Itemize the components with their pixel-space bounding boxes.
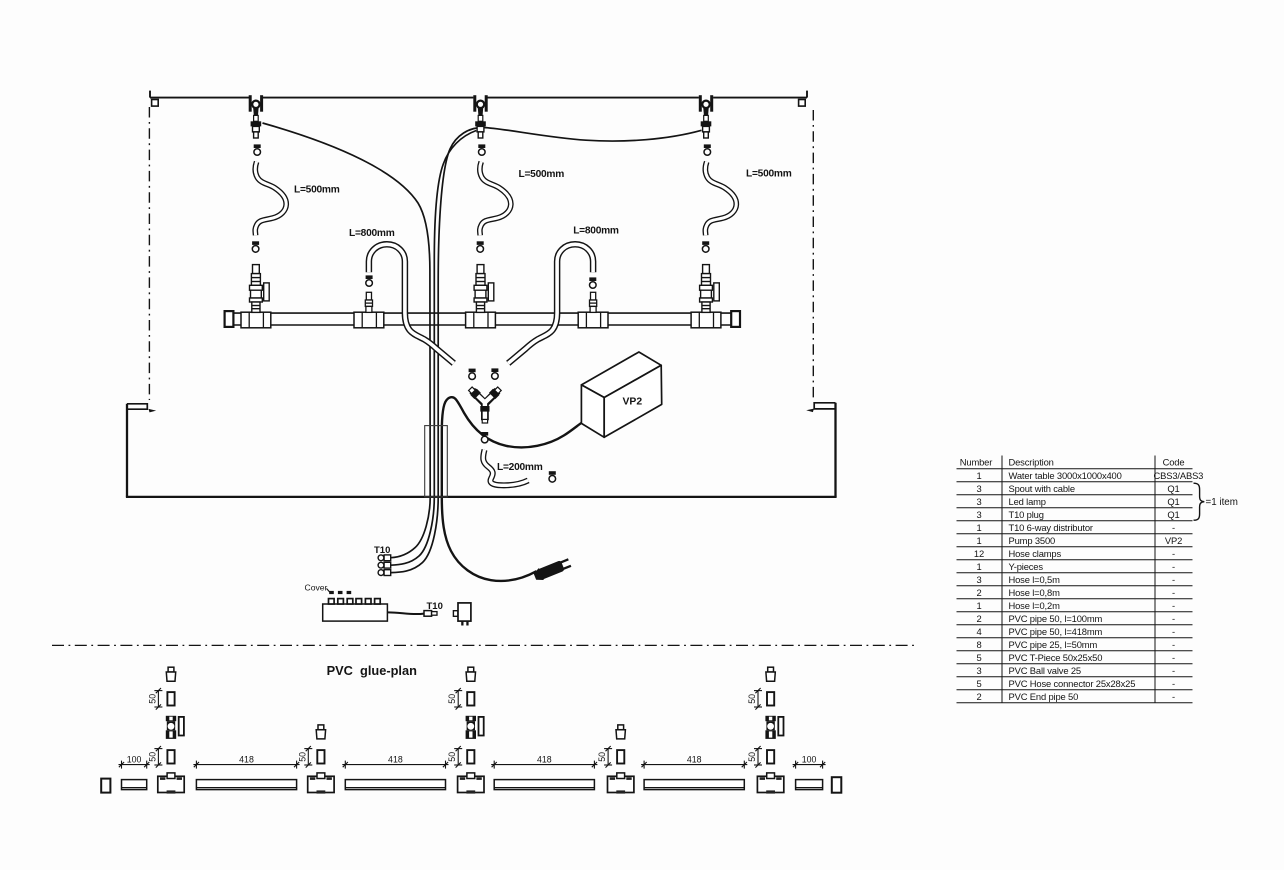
svg-text:Hose clamps: Hose clamps bbox=[1009, 548, 1062, 559]
svg-text:1: 1 bbox=[976, 535, 981, 546]
svg-text:1: 1 bbox=[976, 522, 981, 533]
svg-text:-: - bbox=[1172, 574, 1175, 585]
svg-text:L=500mm: L=500mm bbox=[294, 185, 340, 196]
svg-text:-: - bbox=[1172, 587, 1175, 598]
svg-text:Q1: Q1 bbox=[1167, 509, 1179, 520]
svg-text:VP2: VP2 bbox=[622, 397, 642, 408]
svg-text:Description: Description bbox=[1009, 457, 1054, 468]
svg-text:PVC Ball valve 25: PVC Ball valve 25 bbox=[1009, 665, 1082, 676]
svg-text:3: 3 bbox=[976, 509, 981, 520]
svg-text:5: 5 bbox=[976, 652, 981, 663]
svg-text:PVC End pipe 50: PVC End pipe 50 bbox=[1009, 691, 1079, 702]
svg-text:100: 100 bbox=[802, 754, 817, 764]
svg-text:2: 2 bbox=[976, 691, 981, 702]
svg-text:8: 8 bbox=[976, 639, 981, 650]
svg-text:50: 50 bbox=[297, 752, 307, 762]
svg-text:-: - bbox=[1172, 639, 1175, 650]
svg-text:4: 4 bbox=[976, 626, 981, 637]
svg-text:2: 2 bbox=[976, 613, 981, 624]
svg-text:-: - bbox=[1172, 548, 1175, 559]
svg-text:1: 1 bbox=[976, 561, 981, 572]
svg-text:PVC pipe 25, l=50mm: PVC pipe 25, l=50mm bbox=[1009, 639, 1098, 650]
svg-text:-: - bbox=[1172, 626, 1175, 637]
svg-text:T10 6-way distributor: T10 6-way distributor bbox=[1009, 522, 1093, 533]
svg-text:100: 100 bbox=[127, 754, 142, 764]
svg-text:-: - bbox=[1172, 678, 1175, 689]
svg-text:-: - bbox=[1172, 691, 1175, 702]
svg-text:PVC Hose connector 25x28x25: PVC Hose connector 25x28x25 bbox=[1009, 678, 1136, 689]
svg-text:1: 1 bbox=[976, 470, 981, 481]
svg-text:-: - bbox=[1172, 522, 1175, 533]
svg-text:50: 50 bbox=[747, 752, 757, 762]
svg-text:50: 50 bbox=[447, 752, 457, 762]
svg-text:T10: T10 bbox=[427, 601, 443, 612]
svg-text:Led lamp: Led lamp bbox=[1009, 496, 1046, 507]
svg-text:50: 50 bbox=[147, 752, 157, 762]
svg-text:L=500mm: L=500mm bbox=[746, 168, 792, 179]
svg-text:3: 3 bbox=[976, 574, 981, 585]
svg-text:418: 418 bbox=[537, 754, 552, 764]
svg-text:PVC pipe 50, l=418mm: PVC pipe 50, l=418mm bbox=[1009, 626, 1103, 637]
svg-text:Y-pieces: Y-pieces bbox=[1009, 561, 1044, 572]
svg-text:2: 2 bbox=[976, 587, 981, 598]
svg-text:50: 50 bbox=[747, 694, 757, 704]
svg-text:-: - bbox=[1172, 665, 1175, 676]
svg-text:L=800mm: L=800mm bbox=[349, 228, 395, 239]
svg-text:Hose l=0,2m: Hose l=0,2m bbox=[1009, 600, 1061, 611]
svg-text:PVC pipe 50, l=100mm: PVC pipe 50, l=100mm bbox=[1009, 613, 1103, 624]
svg-text:VP2: VP2 bbox=[1165, 535, 1182, 546]
svg-text:-: - bbox=[1172, 613, 1175, 624]
svg-text:Number: Number bbox=[960, 457, 992, 468]
svg-text:Water table 3000x1000x400: Water table 3000x1000x400 bbox=[1009, 470, 1122, 481]
svg-text:Spout with cable: Spout with cable bbox=[1009, 483, 1075, 494]
svg-text:CBS3/ABS3: CBS3/ABS3 bbox=[1154, 470, 1204, 481]
svg-text:Pump 3500: Pump 3500 bbox=[1009, 535, 1056, 546]
svg-text:Q1: Q1 bbox=[1167, 496, 1179, 507]
svg-text:L=200mm: L=200mm bbox=[497, 462, 543, 473]
svg-text:T10 plug: T10 plug bbox=[1009, 509, 1044, 520]
svg-text:12: 12 bbox=[974, 548, 984, 559]
svg-text:PVC T-Piece 50x25x50: PVC T-Piece 50x25x50 bbox=[1009, 652, 1103, 663]
svg-text:3: 3 bbox=[976, 665, 981, 676]
svg-text:50: 50 bbox=[147, 694, 157, 704]
svg-text:Cover: Cover bbox=[305, 583, 328, 593]
svg-text:L=800mm: L=800mm bbox=[573, 225, 619, 236]
svg-text:Code: Code bbox=[1163, 457, 1185, 468]
svg-text:-: - bbox=[1172, 600, 1175, 611]
svg-text:1: 1 bbox=[976, 600, 981, 611]
svg-text:5: 5 bbox=[976, 678, 981, 689]
svg-text:418: 418 bbox=[388, 754, 403, 764]
svg-text:50: 50 bbox=[447, 694, 457, 704]
svg-text:Hose l=0,5m: Hose l=0,5m bbox=[1009, 574, 1061, 585]
svg-text:50: 50 bbox=[597, 752, 607, 762]
svg-text:Q1: Q1 bbox=[1167, 483, 1179, 494]
svg-text:3: 3 bbox=[976, 496, 981, 507]
svg-text:Hose l=0,8m: Hose l=0,8m bbox=[1009, 587, 1061, 598]
svg-text:3: 3 bbox=[976, 483, 981, 494]
svg-text:-: - bbox=[1172, 561, 1175, 572]
svg-text:T10: T10 bbox=[374, 545, 390, 556]
svg-text:L=500mm: L=500mm bbox=[519, 169, 565, 180]
svg-text:PVC glue-plan: PVC glue-plan bbox=[327, 663, 417, 678]
svg-text:=1 item: =1 item bbox=[1206, 497, 1238, 508]
svg-text:-: - bbox=[1172, 652, 1175, 663]
svg-text:418: 418 bbox=[239, 754, 254, 764]
svg-text:418: 418 bbox=[687, 754, 702, 764]
